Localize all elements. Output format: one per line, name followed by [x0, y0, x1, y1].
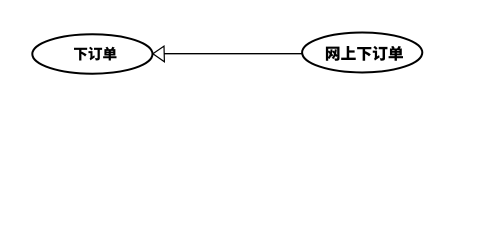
wire: generalization line [164, 53, 302, 55]
use-case ellipse U2 (right): 网上下订单 [302, 33, 422, 73]
hollow triangle arrowhead [153, 46, 165, 62]
label text: 网上下订单 [326, 46, 403, 61]
use-case ellipse U1 (left): 下订单 [32, 34, 152, 73]
label text: 下订单 [74, 47, 117, 61]
